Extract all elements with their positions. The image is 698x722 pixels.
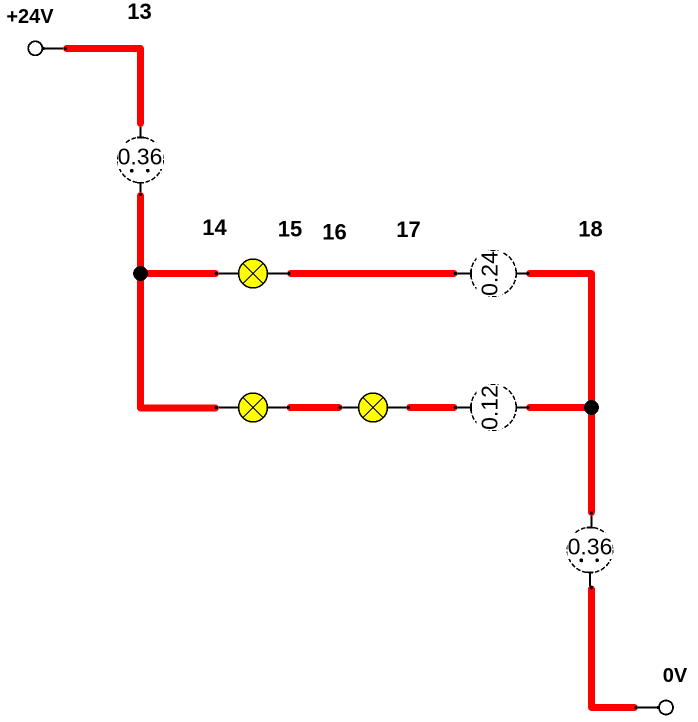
meter A2 (ammeter display, value 0.24, top branch): [471, 251, 516, 296]
terminal: +24V connection point: [28, 41, 45, 55]
connection blob left of lamp P2: [215, 406, 218, 409]
wire 17: red segment lamp to meter 0.24 (top branch): [291, 270, 455, 277]
wire: red segment lamp to meter 0.12 (bottom branch): [410, 404, 455, 411]
junction node: right (wire 18): [584, 400, 599, 415]
wire: red segment below meter 0.36, corner right to 0V terminal: [592, 589, 635, 708]
connection blob left of lamp P3: [339, 406, 342, 409]
pin line: wire to meter A4 top: [591, 513, 593, 528]
lamp P1 (top branch): [239, 259, 268, 288]
wire label 17: [396, 217, 420, 242]
connection blob at wire end near +24V: [64, 47, 67, 50]
connection blob left of meter A3: [454, 406, 457, 409]
meter A4 (ammeter display, value 0.36, bottom right): [567, 527, 612, 572]
meter A3 (ammeter display, value 0.12, bottom branch): [471, 385, 516, 430]
pin line: wire to 0V terminal: [635, 707, 659, 709]
svg-text:0V: 0V: [663, 665, 688, 687]
wire: red segment from +24V terminal, corner down to meter 13: [67, 49, 141, 124]
connection blob near 0V terminal: [634, 706, 637, 709]
connection blob below meter A4: [590, 586, 593, 589]
lamp P2 (bottom branch, left): [239, 393, 268, 422]
wire label 16: [322, 220, 346, 245]
pin line: meter A1 bottom to wire: [140, 183, 142, 195]
wire: red vertical below meter through junction, corner right along bottom branch: [141, 196, 216, 409]
pin line: meter A3 right to wire: [516, 407, 529, 409]
connection blob left of meter A2: [454, 272, 457, 275]
pin line: wire to lamp P3 left: [340, 407, 358, 409]
meter A1 (ammeter display, value 0.36, top left): [118, 137, 164, 183]
pin line: wire to meter A3 left: [455, 407, 471, 409]
pin line: lamp P2 right to wire: [268, 407, 289, 409]
connection blob right of meter A3: [526, 406, 529, 409]
junction node: left (wires 13/14): [133, 266, 148, 281]
pin line: lamp P3 right to wire: [388, 407, 409, 409]
wire 18: red segment from meter 0.24, corner down right side to meter below: [530, 274, 592, 513]
connection blob right of lamp P2: [287, 406, 290, 409]
connection blob below meter A1: [139, 193, 142, 196]
net label 0V: [663, 665, 688, 687]
wire label 15: [278, 217, 302, 242]
pin line: wire to lamp P1 left: [216, 273, 238, 275]
pin line: wire to meter A1 top: [140, 122, 142, 138]
svg-text:15: 15: [278, 217, 302, 242]
pin line: wire to meter A2 left: [455, 273, 471, 275]
wire label 13: [127, 0, 151, 24]
svg-text:18: 18: [578, 217, 602, 242]
connection blob right of lamp P3: [407, 406, 410, 409]
pin line: lamp P1 right to wire: [268, 273, 290, 275]
lamp P3 (bottom branch, right): [359, 393, 388, 422]
svg-text:13: 13: [127, 0, 151, 24]
wire label 18: [578, 217, 602, 242]
wire: red segment meter 0.12 to right junction (bottom branch): [530, 404, 592, 411]
terminal: 0V connection point: [656, 701, 673, 715]
svg-text:0.24: 0.24: [477, 251, 503, 296]
svg-text:0.36: 0.36: [568, 534, 613, 560]
wire label 14: [202, 215, 227, 240]
svg-text:0.12: 0.12: [477, 385, 503, 430]
pin line: meter A4 bottom to wire: [589, 572, 591, 588]
pin line: +24V terminal to wire: [42, 48, 66, 50]
svg-text:+24V: +24V: [6, 6, 54, 28]
net label +24V: [6, 6, 54, 28]
svg-text:17: 17: [396, 217, 420, 242]
svg-text:0.36: 0.36: [118, 144, 163, 170]
wire 16: red segment between the two lamps (bottom branch): [290, 404, 339, 411]
connection blob above meter A4: [590, 511, 593, 514]
pin line: wire to lamp P2 left: [216, 407, 238, 409]
svg-text:14: 14: [202, 215, 227, 240]
connection blob right of lamp P1: [287, 272, 290, 275]
pin line: meter A2 right to wire: [516, 273, 529, 275]
connection blob left of lamp P1: [215, 272, 218, 275]
connection blob right of meter A2: [526, 272, 529, 275]
svg-text:16: 16: [322, 220, 346, 245]
wire 14: red segment junction to lamp (top branch): [141, 270, 216, 277]
